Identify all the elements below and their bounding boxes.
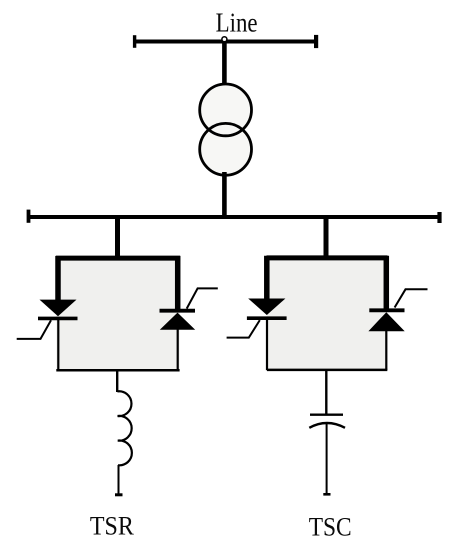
- gate lead (Q3): [227, 320, 260, 338]
- thyristor Q1 (TSR forward): [38, 300, 78, 319]
- wire (TSR box bottom edge): [56, 369, 179, 372]
- gate lead (Q4): [395, 289, 428, 307]
- wire (TSC box bottom edge): [267, 369, 387, 372]
- gate lead (Q2): [187, 288, 218, 308]
- wire (TSC left branch, cathode lead): [266, 318, 268, 370]
- thyristor Q4 (TSC reverse): [368, 310, 404, 331]
- wire (TSR left branch, anode lead): [55, 256, 61, 301]
- wire (Line bus to transformer): [222, 42, 227, 88]
- wire (TSC right branch, cathode lead): [384, 256, 390, 310]
- thyristor Q3 (TSC forward): [247, 299, 287, 319]
- bus bar B2 (SVC bus): [27, 210, 440, 223]
- terminal (TSR): [115, 493, 123, 496]
- transformer T1: [200, 84, 252, 175]
- TSR valve box: [56, 256, 179, 371]
- wire (capacitor to terminal): [326, 423, 328, 494]
- wire (TSR left branch, cathode lead): [57, 318, 59, 370]
- label TSC: [309, 512, 352, 542]
- node A (junction on Line bus): [222, 37, 227, 42]
- svg-text:Line: Line: [216, 7, 258, 37]
- terminal (TSC): [323, 493, 330, 496]
- bus bar B1 (Line bus): [133, 35, 318, 48]
- inductor L1 (TSR reactor): [117, 391, 131, 465]
- wire (TSR box to reactor): [116, 370, 118, 392]
- wire (TSC right branch, anode lead): [385, 331, 387, 371]
- wire (TSC left branch, anode lead): [264, 256, 270, 300]
- wire (TSC box to capacitor): [325, 370, 327, 415]
- wire (reactor to terminal): [118, 465, 120, 495]
- thyristor Q2 (TSR reverse): [160, 311, 196, 330]
- wire (SVC bus to TSR valve): [115, 217, 120, 258]
- wire (TSR right branch, cathode lead): [175, 256, 181, 311]
- wire (SVC bus to TSC valve): [324, 217, 329, 258]
- wire (transformer to SVC bus): [222, 172, 227, 219]
- svg-text:TSR: TSR: [90, 511, 134, 541]
- wire (TSR box top edge): [56, 256, 180, 261]
- label TSR: [90, 511, 134, 541]
- TSC valve box: [267, 256, 387, 370]
- gate lead (Q1): [17, 320, 51, 339]
- label Line: [216, 7, 258, 37]
- capacitor C1 (TSC capacitor): [309, 415, 345, 428]
- svg-text:TSC: TSC: [309, 512, 352, 542]
- wire (TSC box top edge): [267, 255, 388, 260]
- wire (TSR right branch, anode lead): [177, 329, 179, 371]
